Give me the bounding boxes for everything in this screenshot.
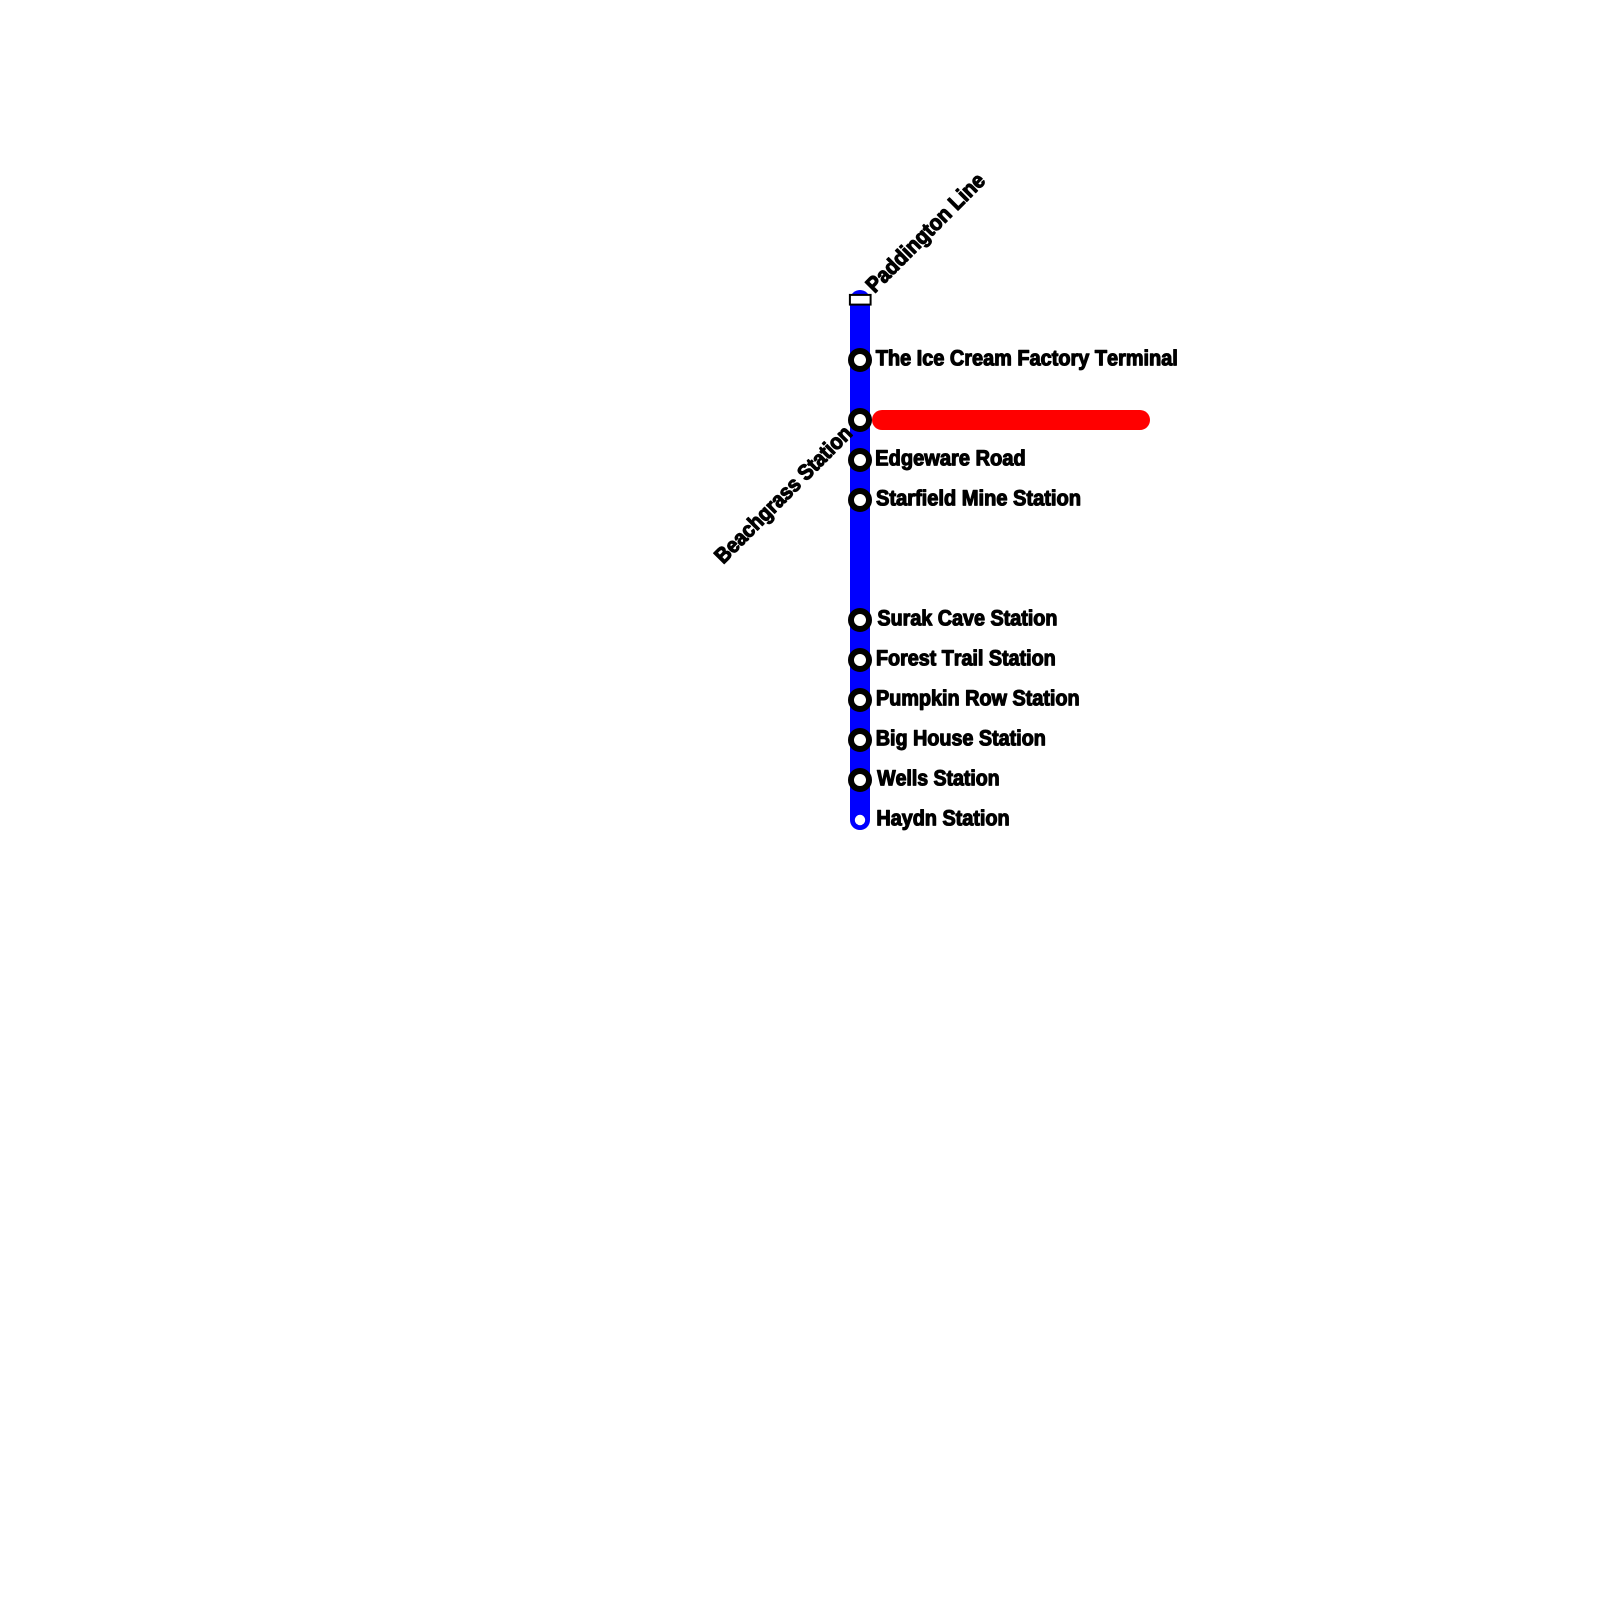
label: Surak Cave Station — [878, 610, 1056, 626]
red interchange route line — [882, 410, 1140, 430]
station: Edgeware Road — [851, 451, 869, 469]
label: Beachgrass Station — [713, 424, 856, 567]
label: Starfield Mine Station — [877, 490, 1080, 506]
label: Wells Station — [877, 770, 998, 786]
label: The Ice Cream Factory Terminal — [876, 350, 1176, 370]
station: Pumpkin Row Station — [851, 691, 869, 709]
station: Wells Station — [851, 771, 869, 789]
station: The Ice Cream Factory Terminal — [851, 351, 869, 369]
station: Haydn Station (terminus dot) — [855, 815, 865, 825]
station: Beachgrass Station (interchange) — [851, 411, 869, 429]
station: Starfield Mine Station — [851, 491, 869, 509]
station: Big House Station — [851, 731, 869, 749]
station: Forest Trail Station — [851, 651, 869, 669]
label: Haydn Station — [878, 810, 1009, 830]
label: Pumpkin Row Station — [877, 690, 1078, 710]
station: Surak Cave Station — [851, 611, 869, 629]
label: Big House Station — [877, 730, 1045, 750]
Paddington Line (blue vertical route line) — [850, 300, 870, 820]
label: Edgeware Road — [877, 450, 1025, 470]
label: Paddington Line — [864, 171, 989, 296]
terminus marker (white rect, black border) at top of Paddington Line — [850, 295, 871, 305]
label: Forest Trail Station — [877, 650, 1054, 666]
